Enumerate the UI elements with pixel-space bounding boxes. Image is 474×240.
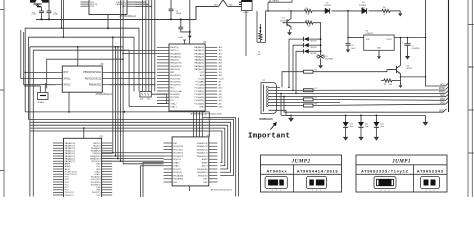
IC U3 ATMEGA163 — [53, 137, 112, 200]
svg-text:AD2: AD2 — [219, 52, 223, 55]
svg-text:1k: 1k — [384, 14, 386, 16]
junction U1 — [107, 27, 109, 29]
wire U5 vcc top — [77, 46, 79, 66]
table JUMP2 — [261, 155, 342, 192]
labels U2 right nets — [219, 46, 225, 108]
svg-text:10k: 10k — [307, 25, 310, 27]
svg-text:R2: R2 — [315, 88, 317, 90]
svg-text:ATMEGA8515/AT90S4414-8515: ATMEGA8515/AT90S4414-8515 — [190, 113, 222, 116]
svg-text:XTAL2: XTAL2 — [173, 161, 180, 164]
svg-text:GND: GND — [199, 106, 204, 108]
svg-text:A8: A8 — [219, 80, 221, 83]
IC U2 AT90S4414/8515 — [157, 42, 217, 111]
svg-text:Q1: Q1 — [282, 18, 285, 20]
svg-text:AGND: AGND — [65, 165, 71, 168]
capacitor C8 47pF — [317, 55, 333, 69]
svg-text:TSV5V6: TSV5V6 — [310, 41, 317, 43]
ground Q2 — [399, 81, 403, 88]
wire U5 right pins to U2 — [109, 72, 156, 84]
svg-text:PA4(ADC4): PA4(ADC4) — [65, 152, 76, 155]
svg-text:MOSI: MOSI — [439, 88, 445, 90]
svg-text:R7: R7 — [384, 84, 386, 86]
svg-text:100nF: 100nF — [176, 13, 182, 15]
svg-text:1N4148: 1N4148 — [324, 5, 331, 7]
svg-text:RST: RST — [440, 99, 445, 101]
svg-text:PD0(RXD): PD0(RXD) — [170, 75, 181, 77]
capacitor C4 100nF — [169, 0, 182, 20]
sheet border right — [468, 0, 474, 197]
svg-text:PA2(AD2): PA2(AD2) — [194, 52, 204, 55]
ground Q1 emitter — [287, 27, 292, 36]
wire Q2 emitter+R7 — [400, 74, 427, 78]
bus line L3 y46.8 — [30, 46, 123, 48]
wire gnd row — [284, 108, 449, 112]
svg-text:XTAL1: XTAL1 — [173, 165, 180, 168]
svg-text:R3: R3 — [315, 97, 317, 99]
svg-text:A11: A11 — [219, 90, 222, 93]
svg-text:XTAL1: XTAL1 — [64, 77, 72, 80]
svg-text:Q2: Q2 — [407, 66, 410, 68]
svg-text:AT90S2323/Tiny12: AT90S2323/Tiny12 — [361, 170, 408, 175]
mid bus verticals V1-V5 — [102, 0, 164, 164]
svg-text:PB7(SCK/SCL): PB7(SCK/SCL) — [85, 77, 102, 80]
svg-text:GND: GND — [439, 110, 444, 112]
svg-text:VCC: VCC — [199, 72, 204, 74]
svg-text:PA0(AD0): PA0(AD0) — [194, 46, 204, 49]
svg-text:27p: 27p — [30, 12, 36, 16]
svg-text:PB5(MOSI): PB5(MOSI) — [170, 63, 181, 65]
wire u1 pins to bundle — [136, 2, 152, 6]
wire U2 bottom v2 — [198, 111, 200, 137]
wire bundle v0 — [141, 0, 143, 91]
resistor R8 — [280, 103, 446, 107]
svg-text:LED: LED — [361, 7, 365, 9]
svg-text:Important: Important — [248, 132, 290, 140]
svg-text:PD3(INT1): PD3(INT1) — [173, 156, 183, 158]
crystal Y1 (cropped at top) — [30, 0, 49, 7]
svg-text:PA3(AD3): PA3(AD3) — [194, 55, 204, 58]
svg-text:AREF: AREF — [202, 161, 208, 164]
svg-text:AD5: AD5 — [219, 62, 223, 65]
vertical wire x189.8 — [189, 0, 191, 32]
svg-text:PD3(INT1): PD3(INT1) — [170, 85, 181, 87]
svg-text:GND: GND — [229, 5, 234, 7]
wire U5 gnd bottom — [68, 92, 70, 113]
svg-text:JUMP2: JUMP2 — [291, 158, 311, 164]
LEDs DL0-DL2 — [281, 115, 425, 141]
svg-text:AT90S1200(etc): AT90S1200(etc) — [119, 15, 136, 18]
svg-text:PB6(MISO): PB6(MISO) — [89, 84, 101, 87]
svg-text:AD7: AD7 — [219, 68, 223, 71]
svg-text:AD0: AD0 — [219, 46, 223, 49]
svg-text:AVCC: AVCC — [202, 165, 208, 168]
wire VOUT — [394, 37, 426, 39]
svg-text:PD1(TXD): PD1(TXD) — [170, 78, 180, 80]
svg-text:PD6(WR): PD6(WR) — [170, 94, 180, 96]
connector X1 — [239, 0, 252, 14]
wire P1 row4 — [280, 95, 446, 97]
svg-text:PC2(A10): PC2(A10) — [194, 87, 204, 90]
text Important — [248, 122, 290, 141]
svg-text:AT90S2343: AT90S2343 — [417, 171, 444, 175]
svg-text:R5: R5 — [305, 8, 307, 10]
svg-text:PB2(ADC2): PB2(ADC2) — [197, 148, 208, 151]
ground P1 — [288, 115, 294, 122]
svg-text:PB0(ADC0): PB0(ADC0) — [197, 155, 208, 158]
svg-text:A10: A10 — [219, 87, 222, 90]
wire P1 row6 — [280, 102, 340, 104]
svg-text:PB6(MISO): PB6(MISO) — [197, 172, 208, 174]
svg-text:A12: A12 — [219, 93, 222, 96]
bus right with entries — [439, 0, 449, 112]
svg-text:PB2(AIN0): PB2(AIN0) — [170, 52, 181, 55]
wire U2 bottom v1 — [196, 111, 198, 137]
svg-text:BC547: BC547 — [407, 68, 413, 70]
svg-text:RST: RST — [173, 143, 178, 145]
svg-text:PC5(A13): PC5(A13) — [194, 96, 204, 99]
svg-text:BC547: BC547 — [280, 20, 286, 22]
wire vpair left — [61, 0, 65, 38]
svg-text:OC1B: OC1B — [219, 78, 225, 80]
wire bundle v2 — [148, 0, 150, 91]
wire U3 top pin — [83, 127, 85, 138]
svg-text:RST: RST — [64, 71, 69, 74]
resistor R2 — [304, 88, 317, 92]
wire U2 bottom v0 — [193, 111, 195, 137]
capacitor C7 47uF — [402, 38, 420, 60]
svg-text:ALE: ALE — [200, 74, 205, 77]
svg-text:PA6(AD6): PA6(AD6) — [194, 65, 204, 68]
wire U2 l rows — [120, 50, 157, 55]
power rail — [266, 10, 305, 12]
svg-text:PA7(AD7): PA7(AD7) — [194, 68, 204, 71]
svg-text:A9: A9 — [219, 84, 221, 87]
svg-text:PB3(AIN1): PB3(AIN1) — [170, 55, 181, 58]
wire P1 shell — [269, 110, 293, 115]
svg-text:A15: A15 — [219, 102, 222, 105]
svg-text:20m: 20m — [365, 126, 369, 128]
wires X1 loop — [246, 11, 266, 56]
svg-text:TSV5V6: TSV5V6 — [310, 53, 317, 55]
svg-text:PA1(AD1): PA1(AD1) — [194, 49, 204, 52]
svg-text:PA4(AD4): PA4(AD4) — [194, 59, 204, 62]
svg-text:PB7(SCK): PB7(SCK) — [170, 69, 180, 71]
svg-text:AT90S1200/2313(etc): AT90S1200/2313(etc) — [211, 189, 233, 192]
transistor Q1 BC547 — [280, 18, 291, 27]
svg-text:AD3: AD3 — [219, 55, 223, 58]
svg-text:PC0(A8): PC0(A8) — [196, 80, 205, 83]
svg-text:20m: 20m — [380, 126, 384, 128]
bus line L2 y37.2 — [29, 37, 135, 119]
svg-text:XTAL2: XTAL2 — [94, 170, 101, 173]
svg-text:GND: GND — [219, 106, 224, 108]
bus nested lines to U4 right — [29, 119, 234, 175]
wire U2 top pin1 — [183, 40, 186, 44]
svg-text:A14: A14 — [219, 99, 222, 102]
svg-text:AGND: AGND — [202, 158, 209, 161]
wire gnd rail — [36, 6, 219, 19]
bus line L3b — [33, 50, 129, 106]
svg-text:PA7(ADC7): PA7(ADC7) — [65, 160, 76, 163]
wire P1 descenders — [280, 93, 285, 116]
wire subbox to U2 xtal — [129, 94, 167, 106]
svg-text:PB6(MISO): PB6(MISO) — [170, 66, 181, 68]
svg-text:SCK: SCK — [440, 95, 445, 97]
svg-text:L7805CV: L7805CV — [366, 33, 375, 35]
diode D6 POWER — [359, 2, 367, 13]
bus v x33.3 — [32, 50, 34, 196]
svg-text:F1: F1 — [258, 52, 260, 54]
svg-text:TSV5V6: TSV5V6 — [310, 47, 317, 49]
resistor R1 — [304, 70, 393, 74]
wire to U5 rst — [24, 72, 55, 74]
svg-text:PB1(T1): PB1(T1) — [170, 50, 178, 52]
ground below C3 — [188, 34, 192, 39]
svg-text:PD1(TXD): PD1(TXD) — [173, 149, 183, 151]
svg-text:PD2(INT0): PD2(INT0) — [170, 81, 181, 83]
svg-text:VIN: VIN — [366, 39, 370, 41]
svg-text:ICP: ICP — [170, 100, 174, 102]
IC U1 AT90S1200 (top, cropped) — [81, 0, 136, 15]
wire Q2 collector — [400, 38, 402, 66]
svg-text:D5: D5 — [326, 3, 328, 5]
wire rail5 — [390, 10, 400, 12]
svg-text:AT90S2343(etc): AT90S2343(etc) — [95, 93, 112, 96]
svg-text:PB1(AIN1): PB1(AIN1) — [173, 178, 183, 181]
bus v x29.9 — [29, 47, 31, 197]
svg-text:GND: GND — [214, 5, 219, 7]
svg-text:DBPROG25: DBPROG25 — [260, 118, 274, 121]
resistor R6 — [382, 7, 390, 16]
svg-text:20m: 20m — [350, 126, 354, 128]
svg-text:10k: 10k — [306, 14, 309, 16]
wire to U5 xtal2 — [24, 32, 56, 85]
sheet border left — [0, 0, 4, 197]
capacitor C6 — [346, 38, 356, 53]
resistor R3b — [280, 97, 446, 101]
wire P1 row1 up — [280, 72, 304, 88]
svg-text:PB1(ADC1): PB1(ADC1) — [197, 152, 208, 155]
svg-text:MISO: MISO — [439, 92, 445, 94]
wire U4 xtal down — [141, 163, 164, 198]
wire VIN — [347, 10, 364, 38]
svg-text:PD6(ICP): PD6(ICP) — [173, 172, 182, 174]
svg-text:PB3(AIN1): PB3(AIN1) — [91, 150, 101, 153]
svg-text:PB4(SS): PB4(SS) — [170, 60, 179, 62]
svg-text:PA3(ADC3): PA3(ADC3) — [65, 150, 76, 153]
svg-text:AD4: AD4 — [219, 59, 223, 62]
bus line A y111.9 — [25, 111, 209, 137]
svg-text:GND: GND — [440, 102, 445, 104]
svg-text:PD0(RXD): PD0(RXD) — [173, 146, 183, 148]
wire VCC path — [426, 0, 446, 86]
svg-text:R4: R4 — [306, 20, 308, 22]
svg-text:D6: D6 — [362, 2, 364, 4]
wire rail4 — [369, 10, 383, 12]
wire Q1 collector — [290, 10, 292, 19]
svg-text:RST: RST — [170, 72, 175, 74]
svg-text:GND: GND — [377, 48, 382, 50]
crystal X2 sub-box — [140, 91, 151, 100]
svg-text:PD2(INT0): PD2(INT0) — [173, 153, 183, 155]
wire P1 row2 — [280, 89, 446, 91]
svg-text:PC6(A14): PC6(A14) — [194, 99, 204, 102]
svg-text:PA0(ADC0): PA0(ADC0) — [65, 142, 76, 145]
svg-text:XTAL1: XTAL1 — [94, 173, 101, 176]
wire bundle v4 — [154, 0, 156, 91]
svg-text:PA6(ADC6): PA6(ADC6) — [65, 157, 76, 160]
connector P1 DB25 — [261, 80, 280, 114]
wire rail3 — [332, 10, 362, 12]
transistor Q2 BC547 — [392, 65, 412, 73]
svg-text:10k: 10k — [389, 84, 392, 86]
wire Q2 base — [388, 69, 393, 71]
diode D5 1N4148 — [324, 3, 331, 14]
wire bundle v1 — [145, 0, 147, 91]
resistor R4 — [287, 20, 321, 55]
wire U1 bottom to bus — [107, 15, 109, 29]
svg-text:PB3(ADC3): PB3(ADC3) — [197, 145, 208, 148]
resistor R7 — [381, 77, 401, 86]
wire bundle v3 — [151, 0, 153, 91]
junction gnd arrow — [422, 115, 428, 126]
capacitor C3 10nF — [178, 18, 191, 39]
svg-text:10nF: 10nF — [178, 37, 183, 39]
svg-text:AT90S4414/8515: AT90S4414/8515 — [297, 170, 338, 175]
svg-text:PD5(T1): PD5(T1) — [173, 169, 181, 171]
switch S1 RESET (cropped) — [267, 0, 292, 12]
svg-text:PA1(ADC1): PA1(ADC1) — [65, 144, 76, 147]
svg-text:R6: R6 — [383, 7, 385, 9]
svg-text:22p: 22p — [140, 99, 143, 101]
svg-text:VOUT: VOUT — [386, 39, 392, 41]
svg-text:PC3(A11): PC3(A11) — [195, 90, 205, 93]
regulator U6 L7805CV — [364, 31, 395, 51]
svg-text:AD1: AD1 — [219, 49, 223, 52]
svg-text:AVCC: AVCC — [65, 168, 71, 171]
wire U2 top pin2 — [189, 32, 191, 44]
svg-text:RST: RST — [203, 179, 208, 181]
wire v pair right of U4 — [203, 118, 238, 197]
IC U4 AT90S2313 — [164, 135, 218, 186]
ground U6 — [377, 50, 381, 59]
svg-text:PD6(ICP): PD6(ICP) — [65, 195, 74, 197]
svg-text:PB7(SCK): PB7(SCK) — [198, 175, 208, 177]
svg-text:XTAL2: XTAL2 — [170, 102, 177, 105]
svg-text:27p: 27p — [52, 12, 58, 16]
svg-text:47pF(MV): 47pF(MV) — [325, 59, 333, 61]
svg-text:PB2(AIN0): PB2(AIN0) — [91, 147, 101, 150]
svg-text:AD6: AD6 — [219, 65, 223, 68]
svg-text:1: 1 — [289, 8, 290, 10]
wire loop around U5 — [47, 58, 124, 88]
capacitor C1 27p — [30, 7, 43, 19]
svg-text:PB0(T0): PB0(T0) — [170, 47, 178, 49]
svg-text:RESET: RESET — [273, 1, 280, 3]
wire P1 row3 — [280, 92, 446, 94]
svg-text:XTAL1: XTAL1 — [170, 105, 177, 108]
jumper JP1 box — [24, 83, 48, 104]
junction dots on gnd line — [41, 18, 43, 20]
svg-text:OC1B: OC1B — [198, 78, 204, 80]
bus line L1 y28.2 — [25, 28, 139, 112]
wire to U5 xtal1 — [21, 30, 56, 79]
svg-text:PB4(ADC4): PB4(ADC4) — [197, 142, 208, 145]
svg-text:PA5(ADC5): PA5(ADC5) — [65, 155, 76, 158]
capacitor C2 27p — [47, 0, 58, 19]
svg-text:PD5(OC1A): PD5(OC1A) — [170, 90, 182, 93]
svg-text:PB5(MOSI/SDA): PB5(MOSI/SDA) — [83, 71, 101, 74]
table JUMP1 — [356, 155, 447, 192]
svg-text:PD4(T0): PD4(T0) — [173, 159, 181, 161]
zener diodes stack — [288, 37, 321, 94]
svg-text:PC4(A12): PC4(A12) — [194, 93, 204, 96]
svg-text:PC7(A15): PC7(A15) — [194, 102, 204, 105]
resistor R5 — [304, 8, 312, 16]
svg-text:A13: A13 — [219, 96, 222, 99]
svg-text:PA5(AD5): PA5(AD5) — [194, 62, 204, 65]
svg-text:AT90Sxx: AT90Sxx — [267, 171, 288, 175]
svg-text:PD7(RD): PD7(RD) — [170, 97, 179, 99]
fuse F1 — [258, 24, 262, 56]
svg-text:JUMP1: JUMP1 — [391, 158, 411, 164]
ground after R6 — [398, 11, 402, 17]
wire rail2 — [312, 10, 325, 12]
svg-text:XTAL2: XTAL2 — [64, 84, 72, 87]
svg-text:PC1(A9): PC1(A9) — [196, 84, 205, 87]
svg-text:PB5(MOSI): PB5(MOSI) — [197, 169, 208, 171]
svg-text:22p: 22p — [147, 99, 150, 101]
wire U2 bottom v3 — [201, 111, 203, 137]
svg-text:AREF: AREF — [65, 163, 71, 166]
svg-text:PA2(ADC2): PA2(ADC2) — [65, 147, 76, 150]
IC U5 AT90S2343 — [56, 64, 109, 92]
wire peak to top (reset) — [214, 0, 240, 7]
wire U4 bottom pin — [188, 186, 190, 191]
svg-text:47uF(MV): 47uF(MV) — [412, 48, 420, 50]
svg-text:JUMP1: JUMP1 — [38, 102, 45, 104]
svg-text:PB0(AIN0): PB0(AIN0) — [173, 174, 183, 177]
